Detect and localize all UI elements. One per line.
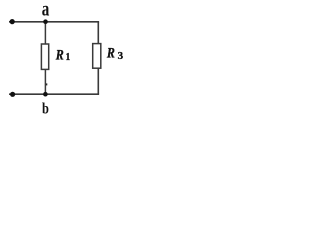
svg-text:R: R <box>106 44 115 61</box>
node b junction dot <box>43 92 48 97</box>
terminal dot top-left <box>10 19 15 24</box>
resistor R1 (rectangle body) <box>41 44 48 69</box>
svg-text:3: 3 <box>118 50 124 62</box>
svg-text:1: 1 <box>65 52 70 63</box>
wire: top horizontal from terminal a to top-right corner <box>9 21 99 23</box>
wire: R3 bottom lead (R3 down to bottom-right corner) <box>97 68 99 94</box>
junction tick on R1 bottom lead <box>46 83 48 85</box>
wire: R1 top lead (node a down to R1) <box>44 22 46 45</box>
node a junction dot <box>43 19 48 24</box>
wire: right vertical (top wire corner down to R3 top lead) <box>97 22 99 44</box>
terminal dot bottom-left <box>10 92 15 97</box>
wire: bottom horizontal from terminal b to bottom-right corner <box>9 93 99 95</box>
svg-text:b: b <box>42 100 49 118</box>
svg-text:a: a <box>42 0 50 20</box>
wire: R1 bottom lead (R1 down to node b) <box>44 69 46 94</box>
resistor R3 (rectangle body) <box>93 44 101 69</box>
svg-text:R: R <box>55 46 64 63</box>
background <box>0 0 125 119</box>
